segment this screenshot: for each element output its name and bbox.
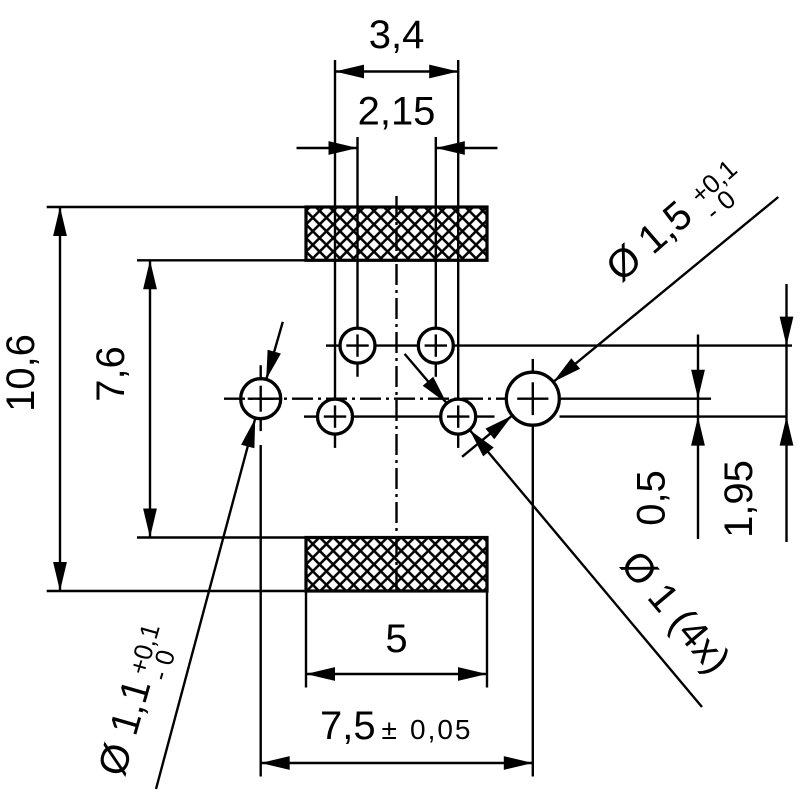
svg-text:3,4: 3,4 (369, 13, 425, 57)
svg-text:0,05: 0,05 (410, 714, 473, 745)
svg-text:7,6: 7,6 (89, 346, 133, 402)
svg-text:±: ± (382, 714, 397, 745)
svg-text:10,6: 10,6 (0, 334, 43, 412)
svg-text:1,95: 1,95 (717, 460, 761, 538)
svg-text:0,5: 0,5 (630, 470, 674, 526)
svg-text:2,15: 2,15 (358, 90, 436, 134)
svg-text:7,5: 7,5 (320, 704, 376, 748)
svg-text:Ø 1 (4x): Ø 1 (4x) (612, 543, 739, 682)
svg-text:Ø 1,5: Ø 1,5 (598, 193, 701, 290)
svg-text:Ø 1,1: Ø 1,1 (90, 674, 159, 780)
svg-text:5: 5 (385, 617, 407, 661)
